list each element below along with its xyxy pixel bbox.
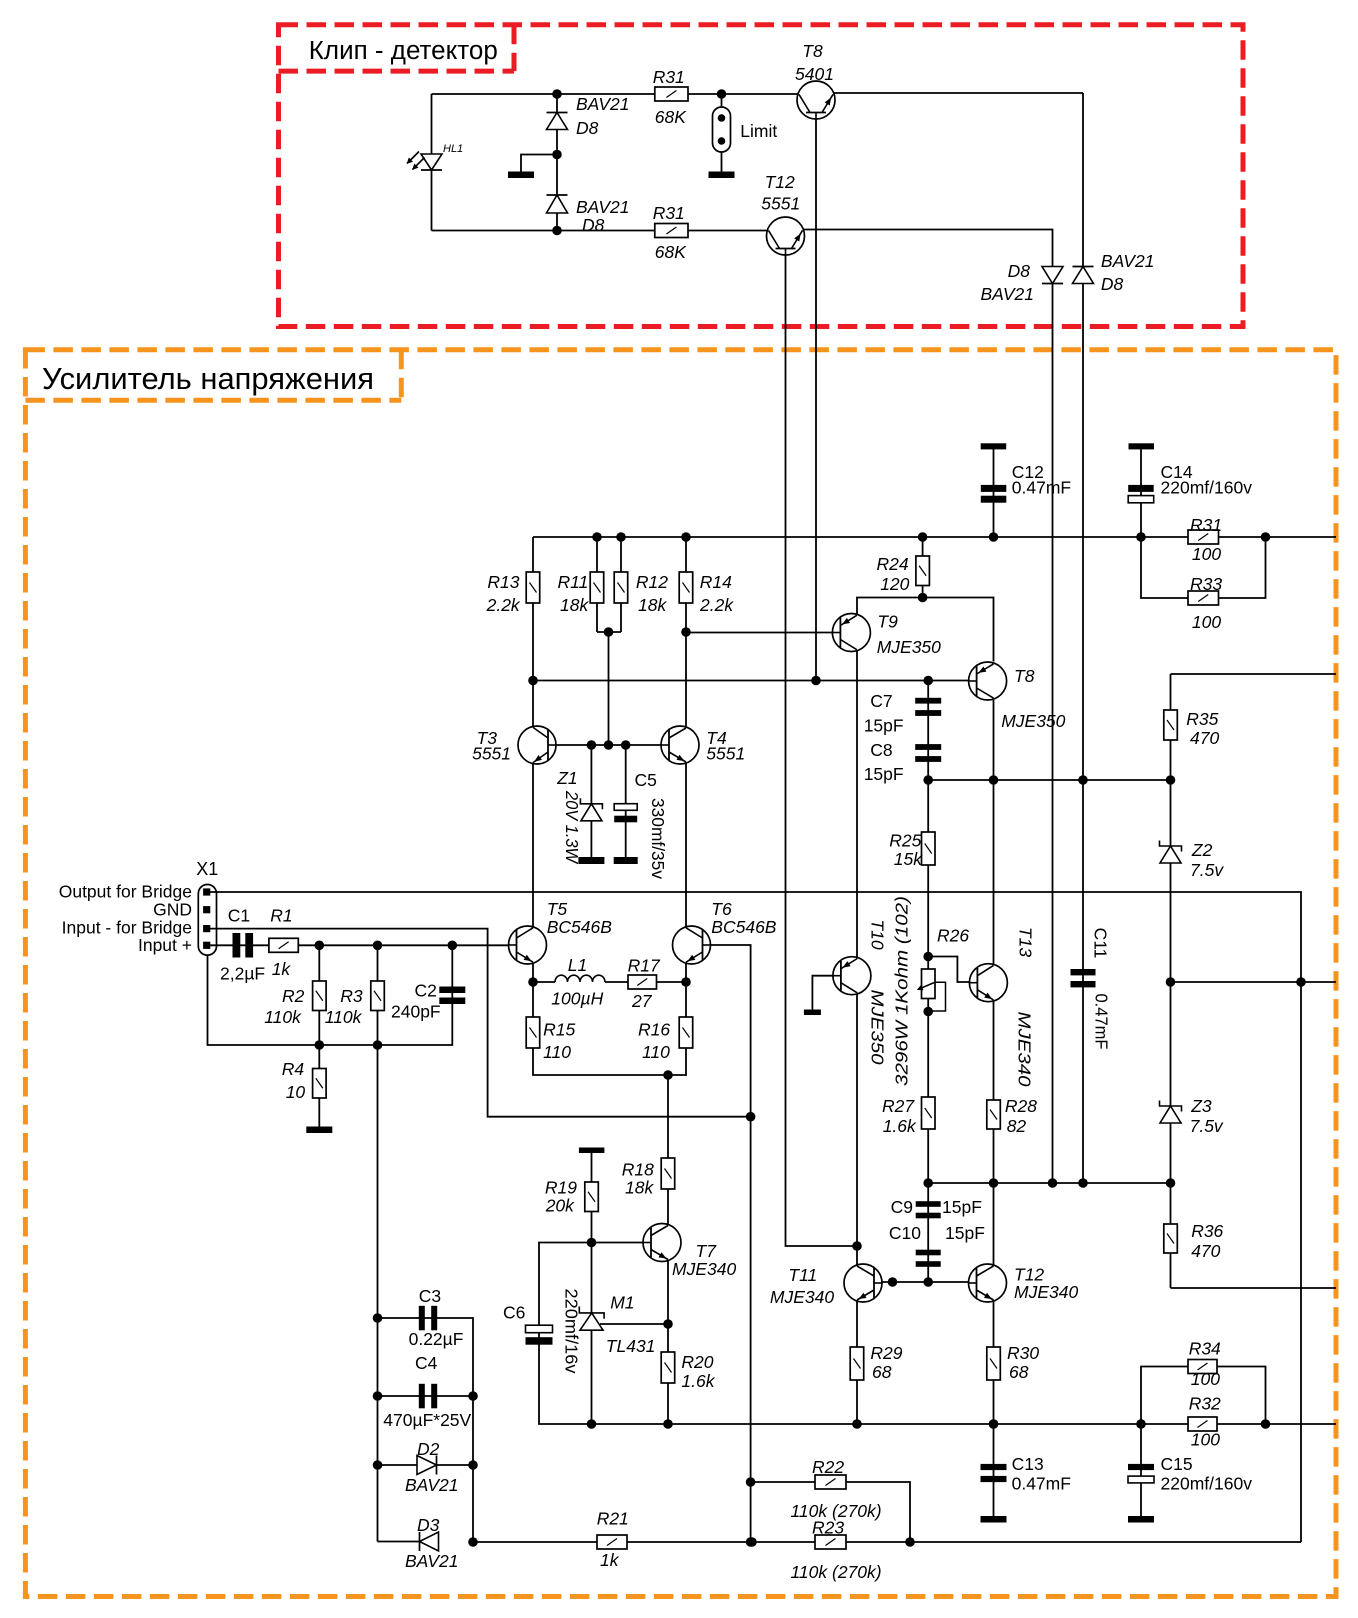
svg-text:R31: R31: [653, 67, 685, 87]
svg-text:27: 27: [631, 991, 653, 1011]
svg-text:BC546B: BC546B: [547, 917, 613, 937]
svg-text:Z1: Z1: [556, 768, 577, 788]
svg-text:100: 100: [1191, 1430, 1220, 1450]
svg-text:68: 68: [1009, 1362, 1029, 1382]
svg-text:R14: R14: [700, 572, 732, 592]
svg-text:100: 100: [1192, 612, 1221, 632]
svg-text:5551: 5551: [761, 194, 800, 214]
svg-text:C2: C2: [415, 981, 437, 1001]
svg-text:220mf/16v: 220mf/16v: [562, 1289, 582, 1374]
svg-text:MJE340: MJE340: [672, 1259, 736, 1279]
svg-text:T8: T8: [1014, 666, 1035, 686]
svg-text:MJE340: MJE340: [1015, 1012, 1035, 1087]
svg-text:R18: R18: [622, 1160, 654, 1180]
svg-text:D2: D2: [417, 1439, 440, 1459]
svg-text:1.6k: 1.6k: [883, 1116, 917, 1136]
svg-text:BC546B: BC546B: [711, 917, 777, 937]
svg-text:R26: R26: [937, 926, 969, 946]
svg-text:C5: C5: [635, 770, 657, 790]
svg-text:Z2: Z2: [1191, 840, 1213, 860]
svg-text:470: 470: [1190, 728, 1219, 748]
svg-text:Клип - детектор: Клип - детектор: [309, 37, 498, 65]
svg-text:240pF: 240pF: [391, 1002, 441, 1022]
svg-text:Усилитель напряжения: Усилитель напряжения: [42, 362, 374, 396]
svg-text:R20: R20: [681, 1352, 713, 1372]
svg-text:R21: R21: [597, 1509, 629, 1529]
svg-text:TL431: TL431: [606, 1336, 656, 1356]
svg-text:GND: GND: [153, 900, 192, 920]
svg-text:15k: 15k: [894, 849, 923, 869]
svg-text:D8: D8: [582, 215, 605, 235]
svg-text:15pF: 15pF: [942, 1197, 982, 1217]
svg-text:330mf/35v: 330mf/35v: [648, 798, 668, 879]
svg-text:MJE340: MJE340: [1014, 1282, 1078, 1302]
svg-text:R28: R28: [1005, 1096, 1037, 1116]
svg-text:MJE350: MJE350: [868, 990, 888, 1065]
svg-text:110k: 110k: [325, 1007, 363, 1027]
svg-text:Limit: Limit: [740, 121, 777, 141]
svg-text:BAV21: BAV21: [576, 94, 630, 114]
svg-text:C11: C11: [1091, 928, 1111, 959]
svg-text:C6: C6: [503, 1303, 525, 1323]
svg-text:R3: R3: [340, 986, 363, 1006]
svg-text:0.47mF: 0.47mF: [1012, 1474, 1071, 1494]
svg-text:R17: R17: [628, 956, 661, 976]
svg-text:7.5v: 7.5v: [1190, 1116, 1224, 1136]
svg-text:R30: R30: [1007, 1343, 1039, 1363]
svg-text:1k: 1k: [600, 1550, 620, 1570]
svg-text:R25: R25: [889, 831, 921, 851]
svg-text:MJE350: MJE350: [1001, 711, 1065, 731]
svg-text:HL1: HL1: [443, 143, 463, 155]
svg-text:T8: T8: [802, 41, 823, 61]
svg-text:18k: 18k: [560, 595, 589, 615]
svg-text:0.47mF: 0.47mF: [1012, 478, 1071, 498]
svg-text:18k: 18k: [638, 595, 667, 615]
svg-text:5551: 5551: [706, 744, 745, 764]
svg-text:T6: T6: [711, 899, 732, 919]
svg-text:110: 110: [543, 1042, 571, 1062]
svg-text:BAV21: BAV21: [576, 197, 630, 217]
svg-text:15pF: 15pF: [864, 764, 904, 784]
svg-text:Z3: Z3: [1190, 1096, 1212, 1116]
svg-text:R27: R27: [882, 1096, 915, 1116]
svg-text:20V 1.3W: 20V 1.3W: [562, 790, 582, 864]
svg-text:C13: C13: [1012, 1454, 1044, 1474]
svg-text:C10: C10: [889, 1223, 921, 1243]
svg-text:20k: 20k: [545, 1196, 575, 1216]
svg-text:1k: 1k: [272, 959, 292, 979]
svg-text:470µF*25V: 470µF*25V: [383, 1410, 471, 1430]
svg-text:R36: R36: [1191, 1221, 1223, 1241]
svg-text:C7: C7: [870, 691, 892, 711]
svg-text:T9: T9: [877, 612, 898, 632]
svg-text:T10: T10: [868, 919, 888, 949]
svg-text:Input +: Input +: [138, 935, 192, 955]
svg-text:T12: T12: [765, 172, 795, 192]
svg-text:R4: R4: [282, 1059, 305, 1079]
svg-text:T5: T5: [547, 899, 568, 919]
svg-text:2.2k: 2.2k: [699, 595, 734, 615]
svg-text:2,2µF: 2,2µF: [220, 964, 265, 984]
svg-text:R11: R11: [558, 572, 589, 592]
svg-text:220mf/160v: 220mf/160v: [1161, 1474, 1253, 1494]
svg-text:C3: C3: [419, 1286, 441, 1306]
svg-text:BAV21: BAV21: [405, 1475, 459, 1495]
svg-text:5401: 5401: [795, 64, 834, 84]
svg-text:R35: R35: [1186, 709, 1218, 729]
svg-text:R22: R22: [812, 1457, 844, 1477]
svg-text:68K: 68K: [655, 242, 687, 262]
svg-text:C8: C8: [870, 740, 892, 760]
svg-text:R32: R32: [1189, 1394, 1221, 1414]
svg-text:100µH: 100µH: [551, 989, 603, 1009]
svg-text:R1: R1: [270, 906, 292, 926]
svg-text:L1: L1: [568, 955, 587, 975]
svg-text:R15: R15: [543, 1020, 575, 1040]
svg-text:220mf/160v: 220mf/160v: [1161, 478, 1253, 498]
svg-text:18k: 18k: [625, 1178, 654, 1198]
svg-text:R2: R2: [282, 986, 305, 1006]
svg-text:3296W 1Kohm (102): 3296W 1Kohm (102): [892, 896, 912, 1086]
svg-text:C9: C9: [891, 1197, 913, 1217]
svg-text:R31: R31: [1190, 515, 1222, 535]
svg-text:X1: X1: [196, 859, 218, 879]
svg-text:110k: 110k: [264, 1007, 302, 1027]
svg-text:82: 82: [1007, 1116, 1027, 1136]
svg-text:C1: C1: [228, 906, 250, 926]
svg-text:R23: R23: [812, 1518, 844, 1538]
svg-text:T11: T11: [788, 1265, 817, 1285]
svg-text:BAV21: BAV21: [980, 284, 1034, 304]
svg-text:10: 10: [286, 1082, 306, 1102]
svg-text:470: 470: [1191, 1241, 1220, 1261]
svg-text:68K: 68K: [655, 107, 687, 127]
svg-text:D3: D3: [417, 1515, 440, 1535]
svg-text:BAV21: BAV21: [1101, 251, 1155, 271]
svg-text:5551: 5551: [472, 744, 511, 764]
svg-text:0.22µF: 0.22µF: [409, 1329, 464, 1349]
svg-text:R13: R13: [487, 572, 519, 592]
svg-text:M1: M1: [610, 1293, 634, 1313]
svg-text:R24: R24: [877, 554, 909, 574]
svg-text:68: 68: [872, 1362, 892, 1382]
svg-text:15pF: 15pF: [945, 1223, 985, 1243]
svg-text:0.47mF: 0.47mF: [1092, 994, 1112, 1050]
svg-text:110: 110: [642, 1042, 670, 1062]
svg-text:100: 100: [1191, 1369, 1220, 1389]
svg-text:R12: R12: [636, 572, 668, 592]
svg-text:R19: R19: [545, 1178, 577, 1198]
svg-text:1.6k: 1.6k: [681, 1371, 715, 1391]
svg-text:7.5v: 7.5v: [1190, 860, 1224, 880]
svg-text:D8: D8: [576, 118, 599, 138]
svg-text:C15: C15: [1161, 1454, 1193, 1474]
svg-text:Output for Bridge: Output for Bridge: [59, 882, 192, 902]
svg-text:D8: D8: [1008, 261, 1031, 281]
svg-text:R33: R33: [1190, 574, 1222, 594]
svg-text:BAV21: BAV21: [405, 1551, 459, 1571]
svg-text:2.2k: 2.2k: [486, 595, 521, 615]
svg-text:100: 100: [1192, 544, 1221, 564]
svg-text:T13: T13: [1016, 927, 1036, 957]
svg-text:R34: R34: [1189, 1339, 1221, 1359]
svg-text:R31: R31: [653, 203, 685, 223]
svg-text:120: 120: [880, 574, 909, 594]
svg-text:T7: T7: [696, 1241, 718, 1261]
svg-text:MJE350: MJE350: [877, 637, 941, 657]
svg-text:15pF: 15pF: [864, 716, 904, 736]
svg-text:110k (270k): 110k (270k): [791, 1562, 882, 1582]
svg-text:MJE340: MJE340: [770, 1287, 834, 1307]
svg-text:R16: R16: [638, 1020, 670, 1040]
svg-text:D8: D8: [1101, 274, 1124, 294]
svg-text:C4: C4: [415, 1353, 438, 1373]
svg-text:R29: R29: [870, 1343, 902, 1363]
